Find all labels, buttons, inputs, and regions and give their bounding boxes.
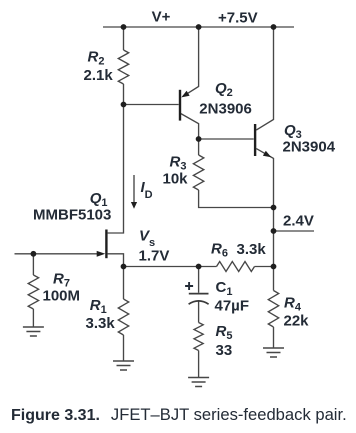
svg-text:33: 33 bbox=[216, 342, 233, 359]
svg-text:10k: 10k bbox=[163, 171, 189, 188]
svg-text:2N3904: 2N3904 bbox=[283, 139, 336, 156]
svg-text:3.3k: 3.3k bbox=[86, 315, 116, 332]
svg-text:V+: V+ bbox=[152, 9, 171, 26]
svg-text:1.7V: 1.7V bbox=[139, 247, 170, 264]
svg-text:2.4V: 2.4V bbox=[283, 212, 314, 229]
svg-text:MMBF5103: MMBF5103 bbox=[33, 207, 111, 224]
svg-text:47µF: 47µF bbox=[215, 297, 250, 314]
svg-text:100M: 100M bbox=[43, 288, 81, 305]
svg-text:22k: 22k bbox=[284, 312, 310, 329]
svg-text:Figure 3.31.JFET–BJT series-fe: Figure 3.31.JFET–BJT series-feedback pai… bbox=[11, 405, 347, 424]
svg-text:2N3906: 2N3906 bbox=[199, 101, 252, 118]
svg-text:+7.5V: +7.5V bbox=[218, 10, 258, 27]
svg-text:2.1k: 2.1k bbox=[84, 67, 114, 84]
svg-text:3.3k: 3.3k bbox=[237, 241, 267, 258]
